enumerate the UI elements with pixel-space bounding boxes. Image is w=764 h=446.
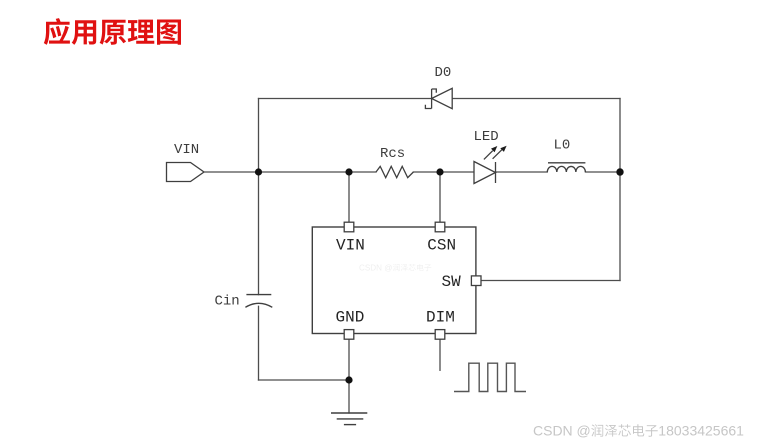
wire node E to ground symbol (348, 380, 350, 413)
pin DIM (square pad) (435, 330, 445, 340)
wire GND pin down to node E (348, 339, 350, 380)
junction node E (345, 376, 352, 383)
wire node A to node B (259, 171, 350, 173)
svg-text:SW: SW (442, 273, 462, 291)
svg-text:L0: L0 (554, 138, 571, 154)
svg-text:VIN: VIN (174, 142, 199, 158)
pin SW (square pad) (471, 276, 481, 286)
faint ghost watermark inside IC (359, 264, 431, 273)
wire bottom rail to node E (259, 379, 350, 381)
wire LED cathode to L0 (496, 171, 548, 173)
wire VIN tag to node A (204, 171, 259, 173)
diode D0 (Schottky, pointing left) (425, 88, 452, 108)
PWM dimming waveform (454, 363, 526, 391)
LED (diode with arrows) (474, 146, 507, 184)
pin VIN (square pad) (344, 222, 354, 232)
wire L0 to node D (585, 171, 620, 173)
wire SW pin to right rail (481, 280, 620, 282)
wire node B to Rcs left lead (349, 171, 376, 173)
wire Cin bottom plate down to bottom rail (258, 306, 260, 380)
svg-text:GND: GND (336, 308, 365, 326)
resistor Rcs (376, 166, 413, 177)
svg-text:CSDN @: CSDN @ (359, 264, 392, 273)
junction node A (255, 168, 262, 175)
watermark CSDN @润泽芯电子18033425661 (533, 423, 744, 439)
svg-text:CSN: CSN (427, 236, 456, 254)
wire Rcs right lead to node C (413, 171, 440, 173)
junction node D (616, 168, 623, 175)
svg-text:CSDN @: CSDN @ (533, 423, 591, 439)
title 应用原理图 (red heading, drawn as glyph paths) (44, 18, 181, 45)
svg-text:Cin: Cin (215, 294, 240, 310)
pin CSN (square pad) (435, 222, 445, 232)
svg-text:LED: LED (474, 129, 499, 145)
wire node B down to VIN pin (348, 172, 350, 222)
svg-text:DIM: DIM (426, 308, 455, 326)
svg-text:18033425661: 18033425661 (658, 423, 744, 439)
ground (331, 413, 367, 425)
svg-text:VIN: VIN (336, 236, 365, 254)
wire DIM pin stub (439, 339, 441, 370)
wire right rail down to SW net (619, 99, 621, 281)
junction node B (345, 168, 352, 175)
wire top rail right segment (D0 anode to right rail) (452, 98, 620, 100)
IC U1 body (312, 227, 476, 334)
svg-text:Rcs: Rcs (380, 146, 405, 162)
wire node A down to Cin top plate (258, 172, 260, 295)
wire node C down to CSN pin (439, 172, 441, 222)
junction node C (436, 168, 443, 175)
inductor L0 (547, 163, 585, 172)
wire node A up to top rail (258, 99, 260, 173)
port VIN input tag (167, 163, 205, 182)
capacitor Cin (245, 295, 272, 308)
wire node C to LED anode (440, 171, 474, 173)
svg-text:D0: D0 (435, 65, 452, 81)
wire top rail left segment (node A to D0 cathode) (259, 98, 432, 100)
pin GND (square pad) (344, 330, 354, 340)
